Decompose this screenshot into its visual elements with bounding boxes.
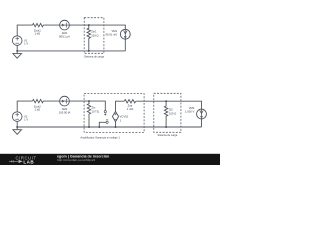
svg-text:http://circuitlab.com/c84jx24: http://circuitlab.com/c84jx24 [57, 158, 95, 162]
voltage source V1 [12, 36, 22, 46]
wire Zout2 to AM2 [43, 100, 60, 102]
junction Zin top [88, 100, 90, 102]
resistor Zoa [124, 100, 135, 103]
junction Zi2 bottom [165, 126, 167, 128]
svg-text:Zi2: Zi2 [169, 108, 173, 112]
voltage source V2 [12, 112, 22, 122]
svg-text:VM2: VM2 [189, 106, 195, 110]
svg-text:AM2: AM2 [62, 107, 68, 111]
wire bottom rail top circuit [17, 50, 125, 52]
junction - control wire / rail [98, 126, 100, 128]
svg-text:1: 1 [120, 118, 122, 122]
svg-text:Amplificador Ganancia en volta: Amplificador Ganancia en voltaje 1 [80, 136, 120, 140]
wire Zoa to VM2 corner [136, 101, 202, 109]
svg-text:100 Ω: 100 Ω [169, 111, 176, 115]
dashed box Sistema de carga (bottom) [154, 93, 181, 132]
wire VCVS1 top to Zoa [116, 101, 125, 111]
voltmeter VM2 [197, 109, 207, 119]
svg-text:Zin1: Zin1 [91, 30, 97, 34]
svg-text:Zin: Zin [92, 106, 96, 110]
ammeter AM2 [60, 96, 70, 106]
wire V2 bottom [16, 121, 18, 127]
junction V2/ground [16, 126, 18, 128]
svg-text:LAB: LAB [23, 159, 34, 164]
VCVS1 - control terminal [106, 121, 108, 123]
dashed box Amplificador [84, 94, 144, 133]
svg-text:1 kΩ: 1 kΩ [34, 108, 40, 112]
wire bottom rail bottom circuit [17, 126, 201, 128]
voltmeter VM1 [120, 29, 130, 39]
resistor Zin (amplifier input) [87, 101, 90, 127]
svg-text:AM1: AM1 [62, 31, 68, 35]
resistor Zin1 [87, 25, 90, 51]
svg-text:Sistema de carga: Sistema de carga [157, 133, 177, 137]
svg-text:1 V: 1 V [24, 118, 28, 122]
svg-text:1.000 V: 1.000 V [185, 110, 194, 114]
ground top circuit [13, 51, 22, 58]
wire AM2 into amp box to + control [69, 101, 105, 110]
svg-text:VCVS1: VCVS1 [120, 115, 129, 119]
junction Zin1 top [88, 24, 90, 26]
wire V1 bottom [16, 45, 18, 51]
svg-text:100.00 fA: 100.00 fA [59, 111, 71, 115]
svg-text:1 V: 1 V [24, 42, 28, 46]
VCVS1 + control terminal [104, 111, 106, 113]
junction VCVS1 bottom / rail [115, 126, 117, 128]
wire VM2 bottom [201, 119, 203, 127]
footer bar [0, 154, 220, 165]
junction Zi2 top [165, 100, 167, 102]
wire V1 top to rail [17, 25, 32, 36]
wire AM1 to VM1 corner [69, 25, 125, 29]
junction Zin bottom [88, 126, 90, 128]
svg-text:100 Ω: 100 Ω [91, 34, 98, 38]
svg-text:10 TΩ: 10 TΩ [92, 110, 99, 114]
svg-text:90.91 mV: 90.91 mV [105, 33, 117, 37]
wire VCVS1 bottom to rail [115, 122, 117, 127]
wire - control to bottom rail [99, 122, 106, 127]
svg-text:Zoa: Zoa [128, 104, 133, 108]
logo wire-diode symbol [9, 160, 22, 163]
wire VM1 bottom [124, 39, 126, 51]
dependent source VCVS1 [112, 111, 118, 121]
svg-text:Sistema de carga: Sistema de carga [84, 55, 104, 59]
resistor Zout2 [33, 99, 44, 102]
wire Zout1 to AM1 [43, 24, 60, 26]
ground bottom circuit [13, 127, 22, 134]
wire V2 top to rail [17, 101, 32, 112]
svg-text:1 kΩ: 1 kΩ [34, 32, 40, 36]
svg-text:1 mΩ: 1 mΩ [127, 107, 134, 111]
junction V1/ground [16, 50, 18, 52]
svg-text:VM1: VM1 [111, 29, 117, 33]
ammeter AM1 [60, 20, 70, 30]
svg-text:909.1 µA: 909.1 µA [59, 35, 70, 39]
resistor Zi2 [164, 101, 167, 127]
dashed box Sistema de carga (top) [84, 18, 104, 54]
resistor Zout1 [33, 23, 44, 26]
junction Zin1 bottom [88, 50, 90, 52]
